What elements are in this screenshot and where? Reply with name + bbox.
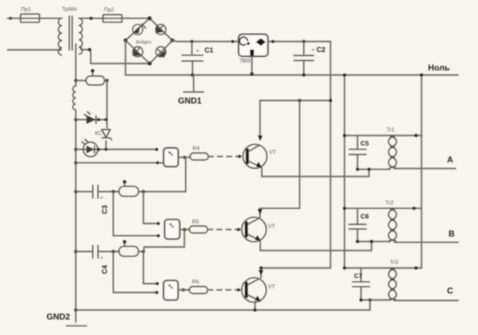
capacitor C7 <box>352 268 370 300</box>
node C1 top <box>190 40 193 43</box>
node rail-C3 <box>74 190 77 193</box>
capacitor C1 <box>182 42 214 76</box>
transistor Q2 <box>242 209 276 242</box>
wire left rail <box>75 44 77 322</box>
wire secondary top to fuse F2 <box>81 17 103 19</box>
wire regulator output <box>268 41 331 43</box>
wire bottom riser to Tr3 <box>369 300 371 310</box>
wire bridge minus down to common <box>125 40 127 75</box>
node C2 top <box>302 40 305 43</box>
wire C3 node down to box2 lower <box>113 192 158 236</box>
transistor Q3 <box>242 270 276 302</box>
fuse F2 <box>103 8 122 23</box>
node reg input arrow <box>231 40 234 43</box>
diode D1 <box>76 112 108 125</box>
svg-text:Tr1: Tr1 <box>387 128 395 134</box>
node rail-C4 <box>74 250 77 253</box>
optocoupler U2 <box>119 180 186 196</box>
wire bottom common <box>76 309 370 311</box>
svg-text:Пр1: Пр1 <box>21 7 31 13</box>
wire Q1 collector <box>259 101 261 139</box>
transformer Tr1 <box>387 128 397 170</box>
diode D2 LED <box>76 139 158 157</box>
svg-text:7805: 7805 <box>240 59 251 65</box>
wire F2 to bridge <box>122 17 150 19</box>
node rail-box1 <box>74 161 77 164</box>
capacitor C5 <box>349 136 370 170</box>
wire bridge plus to regulator <box>172 40 238 41</box>
driver box U4 <box>164 148 179 167</box>
wire regulator gnd pin <box>251 56 253 74</box>
wire Tr1 top <box>345 135 422 137</box>
svg-text:A: A <box>447 155 453 165</box>
wire Q1 emitter <box>262 168 369 177</box>
svg-text:C2: C2 <box>317 47 326 54</box>
driver box U5 <box>165 220 180 240</box>
wire box2 out <box>180 229 190 231</box>
node Q1 base arrow <box>238 155 241 158</box>
svg-text:Tr2: Tr2 <box>386 201 394 207</box>
transformer Tr3 <box>389 260 399 301</box>
node box3 out <box>182 288 185 291</box>
node Q3 emitter <box>253 308 256 311</box>
svg-text:C1: C1 <box>205 48 214 55</box>
node Tr2 bot left <box>356 240 359 243</box>
svg-text:C4: C4 <box>102 265 109 274</box>
node Tr1 top left <box>343 134 346 137</box>
wire +V feed down right <box>261 42 331 279</box>
wire right vertical <box>421 75 423 268</box>
wire opto2 node down to box3 upper <box>143 252 157 284</box>
bridge rectifier Bridge1 <box>124 16 175 65</box>
wire secondary bottom to bridge AC <box>81 47 150 64</box>
fuse F1 <box>21 7 40 22</box>
svg-text:VT: VT <box>269 150 277 156</box>
svg-text:Пр2: Пр2 <box>104 8 114 14</box>
wire Tr2 top <box>345 207 422 209</box>
wire Tr1 bottom <box>358 168 391 170</box>
svg-text:+: + <box>100 196 103 202</box>
node Tr3 bot left <box>359 298 362 301</box>
svg-text:Bridge1: Bridge1 <box>136 40 152 45</box>
svg-text:VT: VT <box>268 285 276 291</box>
node box3 lower arrow <box>155 291 158 294</box>
wire output C <box>394 300 458 302</box>
node rail-D1 <box>74 118 77 121</box>
wire C4 node down to box3 lower <box>113 252 157 293</box>
svg-text:R4: R4 <box>193 146 200 152</box>
wire common rail Ноль <box>126 74 459 76</box>
node C1 bottom on common <box>191 73 194 76</box>
svg-text:C6: C6 <box>361 214 370 221</box>
node Tr2 top left <box>343 207 346 210</box>
trimmer RP1 <box>76 69 109 85</box>
node Tr1 bot left <box>356 168 359 171</box>
inductor L1 <box>73 86 76 110</box>
node C2 bottom on common <box>302 73 305 76</box>
svg-text:КС: КС <box>95 131 102 137</box>
node rail-bottom <box>74 308 77 311</box>
svg-text:+: + <box>100 256 103 262</box>
ground GND2 <box>47 312 88 326</box>
node sec bottom <box>88 48 91 51</box>
wire Tr feed vertical mid <box>344 75 346 268</box>
transformer T1 <box>58 7 82 55</box>
node bus-feed <box>329 99 332 102</box>
node Tr3 top right <box>414 266 417 269</box>
wire R6 to Q3 base <box>208 289 243 291</box>
wire output A <box>394 168 456 170</box>
svg-text:C7: C7 <box>354 273 363 280</box>
transformer Tr2 <box>386 201 397 243</box>
wire Q2 emitter <box>260 241 371 251</box>
node box3 upper arrow <box>156 282 159 285</box>
node feed-nol <box>343 73 346 76</box>
wire L input top <box>8 17 61 19</box>
optocoupler U3 <box>119 240 145 256</box>
node Q2 base arrow <box>237 228 240 231</box>
wire box1 out <box>178 156 190 158</box>
node box1 out <box>183 156 186 159</box>
capacitor C4 branch <box>76 245 119 274</box>
node Tr2 bot emitter riser <box>370 240 373 243</box>
svg-text:+: + <box>196 49 199 55</box>
node rail-D2 <box>74 148 77 151</box>
wire zener column <box>106 81 107 150</box>
ground GND1 <box>178 75 204 106</box>
svg-text:R6: R6 <box>192 280 199 286</box>
wire R4 to Q1 base <box>208 156 244 158</box>
node box2 upper arrow <box>157 222 160 225</box>
node Tr1 top right <box>414 134 417 137</box>
node Tr3 bot emitter riser <box>368 298 371 301</box>
node rail-pot <box>74 79 77 82</box>
svg-text:GND2: GND2 <box>47 312 71 322</box>
driver box U6 <box>164 281 179 301</box>
capacitor C3 branch <box>76 185 119 214</box>
capacitor C2 <box>293 42 325 76</box>
wire opto1 up to box1 output node <box>185 157 187 191</box>
node bus-Q2 <box>298 99 301 102</box>
svg-text:B: B <box>449 229 455 239</box>
transistor Q1 <box>243 136 277 169</box>
node reg out <box>271 40 274 43</box>
node Tr1 bot emitter riser <box>367 168 370 171</box>
resistor R6 <box>189 280 207 294</box>
node Tr3 top left <box>343 266 346 269</box>
wire output B <box>394 241 458 243</box>
node sec top <box>89 17 92 20</box>
node reg gnd on common <box>250 72 253 75</box>
svg-text:C5: C5 <box>361 141 370 148</box>
node box2 out <box>183 228 186 231</box>
wire Tr3 bottom <box>361 299 390 301</box>
svg-text:Tr3: Tr3 <box>390 260 398 266</box>
wire R5 to Q2 base <box>208 229 243 231</box>
zener VD1 <box>95 130 112 141</box>
resistor R5 <box>189 220 207 234</box>
wire Q2 collector riser <box>260 101 300 218</box>
node Q3 collector top <box>259 266 262 269</box>
svg-text:C: C <box>447 286 453 296</box>
svg-text:ТрМН: ТрМН <box>62 7 77 13</box>
svg-text:+: + <box>312 48 315 54</box>
svg-text:GND1: GND1 <box>178 96 202 106</box>
wire +V bus y100 <box>260 100 331 102</box>
wire opto1 node down to box2 upper <box>143 192 158 224</box>
resistor R4 <box>190 146 208 160</box>
wire box3 out <box>178 289 189 291</box>
node Tr2 top right <box>412 207 415 210</box>
wire L input bottom <box>8 49 62 51</box>
svg-text:Ноль: Ноль <box>428 63 450 73</box>
regulator U1 <box>239 34 268 64</box>
wire Tr3 top <box>345 267 422 269</box>
node rightv-nol <box>420 73 423 76</box>
svg-text:VT: VT <box>268 224 276 230</box>
node box2 lower arrow <box>157 234 160 237</box>
wire box2 output down-left to opto2 <box>144 230 184 252</box>
node Q3 base arrow <box>237 288 240 291</box>
node box1 lower arrow <box>156 161 159 164</box>
svg-text:C3: C3 <box>102 205 109 214</box>
wire rail to box1 lower input <box>76 162 164 164</box>
capacitor C6 <box>349 208 370 241</box>
svg-text:R5: R5 <box>192 220 199 226</box>
wire Tr2 bottom <box>358 241 391 243</box>
wire Q3 emitter <box>254 301 256 310</box>
